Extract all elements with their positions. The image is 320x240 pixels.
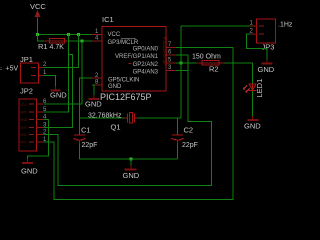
svg-text:150 Ohm: 150 Ohm (192, 54, 221, 61)
resistor R1 (38, 39, 68, 52)
svg-text:GP2/AN2: GP2/AN2 (133, 62, 159, 68)
wire JP2 pin2 to IC pin6 (ICSPCLK loop) (44, 55, 212, 186)
wire JP3 pin2 to ground (247, 34, 267, 60)
svg-text:PIC12F675P: PIC12F675P (161, 37, 167, 66)
svg-text:4.7K: 4.7K (50, 44, 65, 51)
svg-text:GND: GND (108, 84, 122, 90)
wire IC pin8 to ground (92, 85, 94, 95)
svg-text:R2: R2 (209, 65, 219, 74)
wire JP3 pin1 riser down to GP2 net and crystal row (180, 26, 182, 118)
ground under JP2 (21, 159, 38, 176)
supply symbol VCC (30, 2, 46, 19)
svg-text:GND: GND (20, 118, 28, 122)
wire jog branch to JP2 pin 3 (44, 55, 73, 128)
pin 1 VCC (92, 29, 121, 38)
LED LED1 (243, 79, 264, 98)
resistor R2 (192, 54, 225, 74)
svg-text:PIC12F675P: PIC12F675P (100, 92, 152, 102)
ground under LED1 (244, 116, 261, 131)
ground under JP3 (258, 60, 275, 75)
svg-text:22pF: 22pF (182, 142, 198, 149)
svg-text:+5V: +5V (6, 66, 19, 73)
svg-text:VCC: VCC (20, 103, 27, 107)
wire LED1 cathode to ground (252, 91, 254, 116)
svg-text:GP3/MCLR: GP3/MCLR (108, 40, 139, 46)
connector JP1 (0, 55, 47, 83)
svg-text:IC1: IC1 (102, 15, 114, 24)
svg-text:C2: C2 (184, 126, 194, 135)
svg-text:GND: GND (85, 100, 102, 109)
wire R1 to IC pin 4 (MCLR net) (68, 40, 92, 42)
svg-text:GP5/CLKIN: GP5/CLKIN (108, 78, 139, 84)
svg-text:VCC: VCC (20, 133, 27, 137)
svg-text:GND: GND (123, 171, 140, 180)
IC U1 PIC12F675 body (100, 15, 167, 102)
connector JP3 (250, 19, 293, 52)
svg-text:Q1: Q1 (111, 123, 121, 132)
svg-text:GND: GND (258, 65, 275, 74)
wire VCC stem down to R1 (38, 35, 45, 42)
wire crystal bus (80, 117, 182, 119)
svg-text:LED1: LED1 (255, 79, 264, 98)
svg-text:VPP: VPP (20, 141, 26, 145)
svg-text:VCC: VCC (108, 32, 121, 38)
node junction GP2 / JP3 riser (180, 61, 183, 64)
capacitor C2 (172, 126, 198, 150)
ground under crystal bus (123, 166, 140, 181)
wire VCC vertical (37, 19, 39, 35)
wire C2 top riser (177, 118, 179, 135)
wire JP2 pin1 to IC pin7 (ICSPDAT loop) (44, 48, 233, 200)
svg-text:GND: GND (244, 122, 261, 131)
pin 6 VREF/GP1/AN1 (115, 50, 176, 61)
pin 4 GP3/MCLR (92, 36, 139, 47)
wire IC pin5 to R2 (176, 62, 197, 64)
svg-text:GND: GND (21, 167, 38, 176)
wire IC pin3 to riser (176, 70, 188, 72)
wire MCLR riser down to JP2 pin 6 (44, 41, 82, 104)
svg-text:JP3: JP3 (262, 43, 275, 52)
svg-text:VREF/GP1/AN1: VREF/GP1/AN1 (115, 54, 159, 60)
wire JP1 pin2 to VCC riser (44, 35, 79, 68)
svg-text:GP0: GP0 (20, 126, 27, 130)
node junction on VCC at x78.5 (77, 33, 80, 36)
svg-text:32.768kHz: 32.768kHz (88, 113, 122, 120)
svg-text:.1Hz: .1Hz (278, 22, 293, 29)
wire VCC bus to IC pin 1 (38, 34, 103, 36)
wire JP1 pin1 to ground (44, 76, 56, 87)
wire VCC riser to JP2 pin 5 (44, 35, 69, 113)
wire C1 bottom to ground bus (79, 144, 81, 160)
node junction on VCC at x68.5 (67, 33, 70, 36)
pin 2 GP5/CLKIN (92, 73, 139, 84)
connector JP2 (19, 87, 47, 152)
node junction MCLR at x82 (81, 40, 84, 43)
pin 7 GP0/AN0 (133, 42, 176, 53)
svg-text:GND: GND (50, 91, 67, 100)
ground under JP1 (50, 86, 67, 100)
svg-text:GP0: GP0 (20, 111, 27, 115)
svg-text:GP4/AN3: GP4/AN3 (133, 70, 159, 76)
wire C2 bottom to ground bus (177, 144, 179, 160)
svg-text:VCC: VCC (30, 2, 46, 11)
pin 3 GP4/AN3 (133, 65, 176, 76)
wire cap ground bus (80, 158, 178, 160)
svg-text:GP0/AN0: GP0/AN0 (133, 47, 159, 53)
pin 5 GP2/AN2 (129, 57, 177, 68)
svg-text:JP2: JP2 (20, 87, 33, 96)
ground under IC pin8 (85, 95, 102, 109)
wire JP3 pin1 horizontal (181, 25, 251, 27)
svg-text:C1: C1 (81, 126, 91, 135)
wire ground drop crystal (130, 159, 132, 165)
svg-text:R1: R1 (38, 42, 48, 51)
node junction on VCC at x37 (36, 33, 39, 36)
wire JP2 pin4 to ground (28, 120, 49, 159)
wire R2 to LED1 (225, 63, 253, 84)
wire IC pin2 to crystal left node (80, 78, 93, 135)
crystal Q1 (88, 113, 138, 132)
pin 8 GND (92, 80, 122, 91)
capacitor C1 (74, 126, 98, 150)
svg-text:22pF: 22pF (82, 142, 98, 149)
node junction ground bus (130, 158, 133, 161)
